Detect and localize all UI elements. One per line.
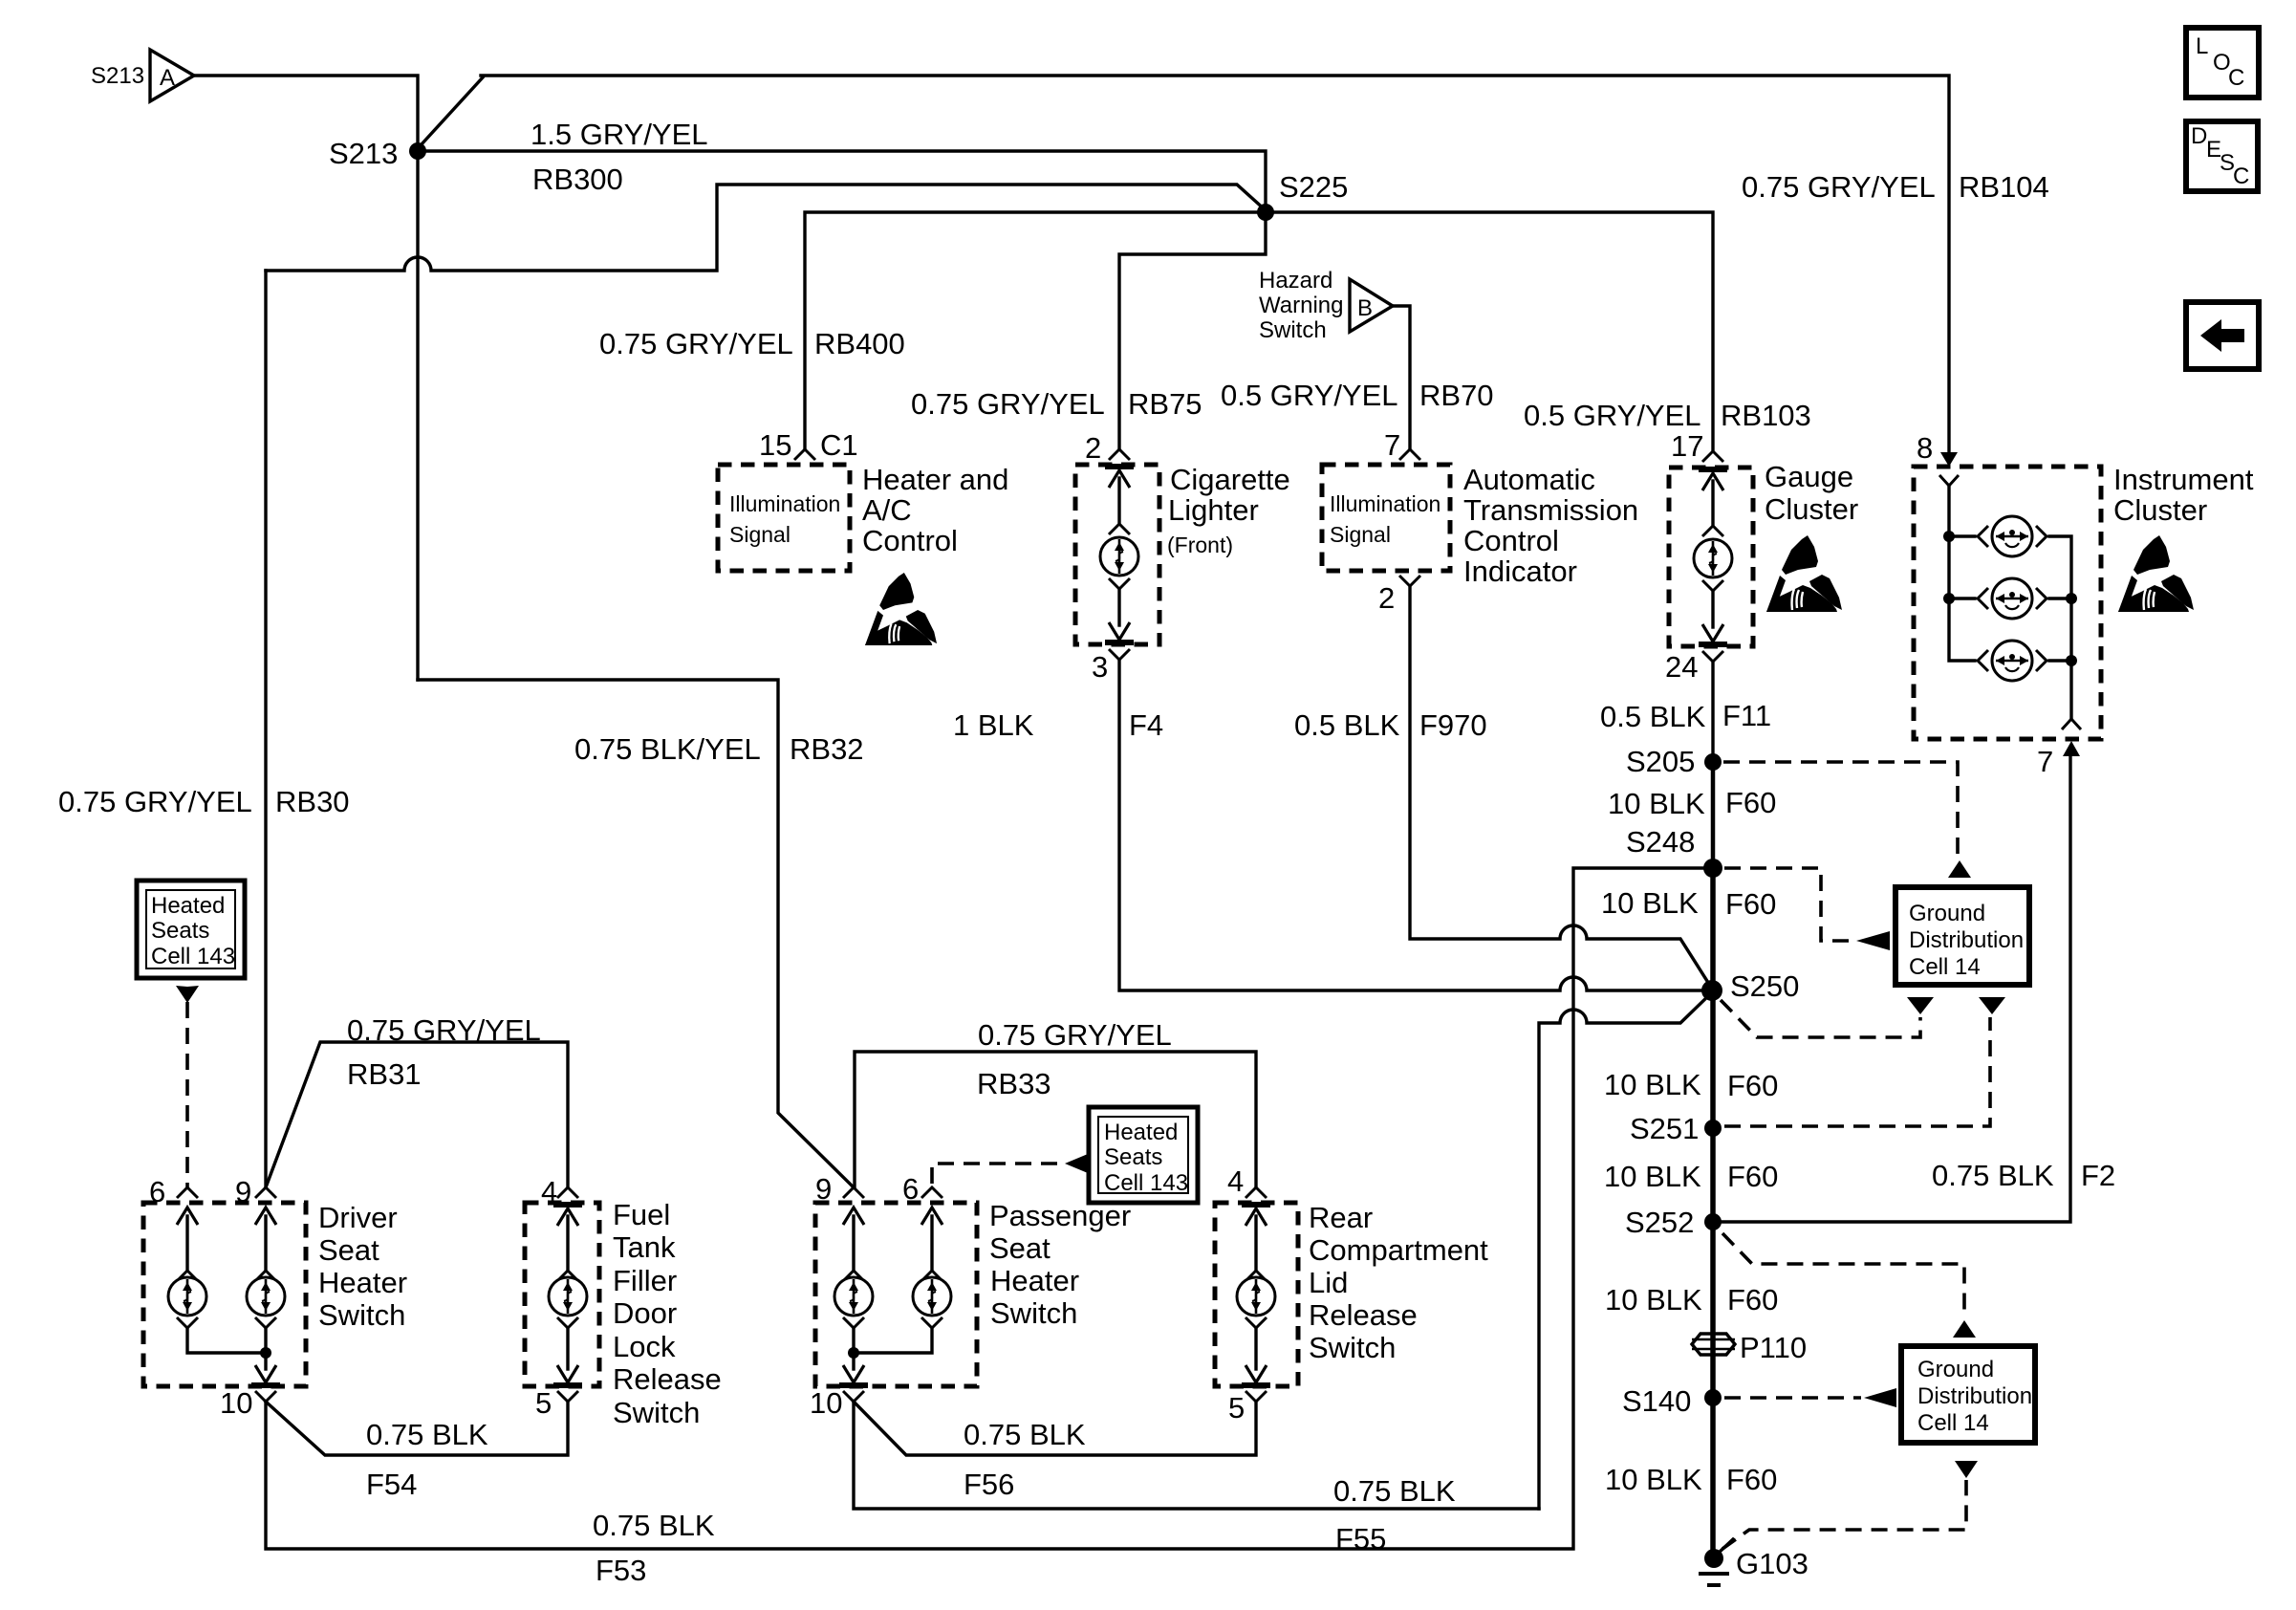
- connector arrow S213-A: [91, 50, 194, 101]
- wire RB104 top run to instrument cluster pin 8: [481, 76, 1949, 453]
- svg-text:A/C: A/C: [862, 493, 912, 527]
- node S248: [1626, 825, 1722, 878]
- svg-text:C: C: [2233, 163, 2249, 189]
- wire F56 passenger pin 10 to rear compartment pin 5: [854, 1402, 1256, 1455]
- svg-text:2: 2: [1378, 581, 1395, 615]
- component cigarette lighter: [1075, 449, 1290, 660]
- svg-text:Heated: Heated: [1104, 1120, 1178, 1145]
- svg-text:8: 8: [1917, 431, 1933, 465]
- svg-text:F60: F60: [1727, 1069, 1778, 1102]
- svg-text:(Front): (Front): [1167, 533, 1233, 557]
- svg-text:10 BLK: 10 BLK: [1608, 787, 1705, 820]
- svg-text:Tank: Tank: [613, 1230, 676, 1264]
- svg-text:F60: F60: [1726, 1463, 1777, 1496]
- dashed link S250 to ground distribution cell 14 upper: [1721, 997, 1934, 1037]
- svg-text:F11: F11: [1722, 699, 1771, 732]
- svg-text:Release: Release: [613, 1362, 722, 1396]
- svg-text:S252: S252: [1625, 1206, 1694, 1239]
- svg-text:F53: F53: [596, 1554, 646, 1587]
- svg-text:17: 17: [1671, 429, 1703, 463]
- svg-text:Signal: Signal: [1330, 522, 1391, 547]
- svg-text:24: 24: [1665, 650, 1698, 684]
- svg-text:RB32: RB32: [790, 732, 864, 766]
- svg-text:Seats: Seats: [151, 918, 209, 944]
- svg-text:Cigarette: Cigarette: [1170, 463, 1290, 496]
- svg-text:Heater and: Heater and: [862, 463, 1008, 496]
- svg-text:3: 3: [1092, 650, 1108, 684]
- svg-text:5: 5: [1228, 1391, 1245, 1425]
- svg-text:Filler: Filler: [613, 1264, 677, 1297]
- svg-text:Seat: Seat: [989, 1231, 1051, 1265]
- svg-text:Signal: Signal: [729, 522, 791, 547]
- box heated seats cell 143 left: [137, 881, 245, 978]
- svg-text:Lid: Lid: [1309, 1266, 1348, 1299]
- wire F4 cigarette lighter pin 3 to S250: [1119, 660, 1710, 990]
- svg-text:RB33: RB33: [977, 1067, 1051, 1100]
- grommet P110: [1692, 1331, 1807, 1364]
- svg-text:F60: F60: [1725, 887, 1776, 921]
- svg-text:Release: Release: [1309, 1298, 1418, 1332]
- svg-text:0.75 BLK: 0.75 BLK: [366, 1418, 488, 1451]
- svg-text:Lighter: Lighter: [1168, 493, 1259, 527]
- component passenger seat heater switch: [815, 1187, 1131, 1402]
- svg-text:C: C: [2228, 65, 2244, 91]
- svg-text:Heater: Heater: [318, 1266, 407, 1299]
- box ground distribution cell 14 lower: [1901, 1346, 2035, 1443]
- dashed link passenger pin 6 to heated seats cell 143: [932, 1154, 1088, 1184]
- svg-text:Cell 14: Cell 14: [1917, 1410, 1989, 1436]
- svg-text:Cell 143: Cell 143: [151, 944, 235, 969]
- svg-text:Seats: Seats: [1104, 1144, 1162, 1170]
- svg-text:Compartment: Compartment: [1309, 1233, 1488, 1267]
- svg-text:F2: F2: [2081, 1159, 2115, 1192]
- svg-text:Cell 143: Cell 143: [1104, 1170, 1188, 1196]
- svg-text:0.75 GRY/YEL: 0.75 GRY/YEL: [347, 1013, 541, 1047]
- svg-text:F60: F60: [1727, 1160, 1778, 1193]
- svg-text:F56: F56: [964, 1468, 1014, 1501]
- svg-text:RB75: RB75: [1128, 387, 1202, 421]
- svg-text:S251: S251: [1630, 1112, 1699, 1145]
- wire RB30 branch S213 down: [416, 151, 419, 680]
- wire RB400 S225 to heater A/C pin 15: [805, 212, 1266, 449]
- svg-text:5: 5: [535, 1386, 552, 1420]
- svg-text:Transmission: Transmission: [1463, 493, 1638, 527]
- svg-text:Ground: Ground: [1909, 901, 1985, 926]
- node S252: [1625, 1206, 1722, 1239]
- svg-text:A: A: [160, 65, 175, 91]
- svg-text:S213: S213: [91, 63, 144, 89]
- svg-text:Cluster: Cluster: [1765, 492, 1858, 526]
- ESD symbol gauge cluster: [1766, 535, 1842, 612]
- svg-text:F54: F54: [366, 1468, 417, 1501]
- svg-text:Control: Control: [862, 524, 958, 557]
- svg-text:Lock: Lock: [613, 1330, 676, 1363]
- svg-text:Seat: Seat: [318, 1233, 379, 1267]
- wire RB30 horizontal with hop to S225 diagonal: [266, 185, 1266, 271]
- dashed link G103 to ground distribution cell 14 lower: [1722, 1461, 1978, 1549]
- wire RB30 vertical to driver pin 9: [264, 271, 267, 1187]
- node S250: [1701, 969, 1799, 1003]
- svg-text:7: 7: [1384, 428, 1400, 462]
- component ATC indicator illumination signal box: [1322, 449, 1638, 588]
- svg-text:Instrument: Instrument: [2113, 463, 2254, 496]
- wire RB103 S225 to gauge cluster pin 17: [1266, 212, 1713, 449]
- svg-text:G103: G103: [1736, 1547, 1809, 1580]
- svg-text:C1: C1: [820, 428, 858, 462]
- svg-text:RB31: RB31: [347, 1057, 422, 1091]
- dashed link S252 to ground distribution cell 14 lower: [1722, 1233, 1976, 1338]
- svg-text:F970: F970: [1419, 708, 1487, 742]
- svg-text:S213: S213: [329, 137, 398, 170]
- svg-text:RB70: RB70: [1419, 379, 1494, 412]
- svg-text:Hazard: Hazard: [1259, 268, 1332, 294]
- svg-text:0.75 GRY/YEL: 0.75 GRY/YEL: [599, 327, 793, 360]
- svg-text:RB103: RB103: [1721, 399, 1811, 432]
- svg-text:Switch: Switch: [318, 1298, 405, 1332]
- node S251: [1630, 1112, 1722, 1145]
- svg-text:10: 10: [220, 1386, 252, 1420]
- svg-text:L: L: [2196, 33, 2208, 59]
- node S140: [1622, 1384, 1722, 1418]
- svg-text:0.75 BLK: 0.75 BLK: [593, 1509, 715, 1542]
- svg-text:1.5 GRY/YEL: 1.5 GRY/YEL: [531, 118, 708, 151]
- svg-text:RB104: RB104: [1959, 170, 2049, 204]
- svg-text:7: 7: [2037, 745, 2053, 778]
- svg-text:F60: F60: [1727, 1283, 1778, 1316]
- svg-text:10 BLK: 10 BLK: [1604, 1068, 1701, 1101]
- svg-text:10 BLK: 10 BLK: [1604, 1160, 1701, 1193]
- dashed link S205 to ground distribution cell 14 upper: [1723, 762, 1971, 878]
- svg-text:Cluster: Cluster: [2113, 493, 2207, 527]
- svg-text:RB30: RB30: [275, 785, 350, 818]
- svg-text:0.5 BLK: 0.5 BLK: [1294, 708, 1400, 742]
- node S205: [1626, 745, 1722, 778]
- wire F60 S205 to S248: [1711, 762, 1716, 868]
- svg-text:0.5 GRY/YEL: 0.5 GRY/YEL: [1524, 399, 1701, 432]
- legend box DESC: [2186, 121, 2258, 191]
- ground G103: [1699, 1539, 1809, 1585]
- wire RB33 passenger pin 9 to rear compartment pin 4: [855, 1052, 1256, 1187]
- svg-text:Switch: Switch: [1309, 1331, 1396, 1364]
- box heated seats cell 143 right: [1089, 1107, 1198, 1203]
- wire RB70 hazard switch to ATC pin 7: [1393, 306, 1410, 449]
- wire F55 passenger pin 10 down and right: [854, 1402, 1539, 1509]
- legend box LOC: [2186, 28, 2259, 98]
- svg-text:0.75 BLK: 0.75 BLK: [1932, 1159, 2054, 1192]
- wire F53 S248 to driver pin 10: [266, 868, 1713, 1549]
- svg-text:RB400: RB400: [814, 327, 905, 360]
- svg-text:Distribution: Distribution: [1917, 1383, 2032, 1409]
- svg-text:Cell 14: Cell 14: [1909, 954, 1981, 980]
- component rear compartment lid release switch: [1215, 1187, 1488, 1402]
- dashed link S140 to ground distribution cell 14 lower: [1724, 1388, 1896, 1407]
- svg-text:S250: S250: [1730, 969, 1799, 1003]
- svg-text:F55: F55: [1335, 1522, 1386, 1556]
- svg-text:F60: F60: [1725, 786, 1776, 819]
- svg-text:10 BLK: 10 BLK: [1601, 886, 1699, 920]
- svg-text:0.75 BLK: 0.75 BLK: [1333, 1474, 1456, 1508]
- svg-text:0.5 GRY/YEL: 0.5 GRY/YEL: [1221, 379, 1398, 412]
- wire F60 bus S248 to G103: [1710, 868, 1716, 1560]
- svg-text:Distribution: Distribution: [1909, 927, 2024, 953]
- wire diagonal S213 to top run: [421, 77, 483, 145]
- svg-text:S225: S225: [1279, 170, 1348, 204]
- svg-text:Ground: Ground: [1917, 1357, 1994, 1382]
- svg-text:Fuel: Fuel: [613, 1198, 670, 1231]
- svg-text:F4: F4: [1129, 708, 1163, 742]
- svg-text:0.75 GRY/YEL: 0.75 GRY/YEL: [911, 387, 1105, 421]
- svg-text:0.5 BLK: 0.5 BLK: [1600, 700, 1706, 733]
- svg-text:S248: S248: [1626, 825, 1695, 859]
- legend box back arrow: [2186, 302, 2259, 369]
- svg-text:Control: Control: [1463, 524, 1559, 557]
- svg-text:Warning: Warning: [1259, 293, 1343, 318]
- svg-text:15: 15: [759, 428, 791, 462]
- wire F11 gauge cluster pin 24 to S205: [1711, 662, 1714, 762]
- svg-text:Illumination: Illumination: [729, 491, 840, 516]
- svg-text:1 BLK: 1 BLK: [953, 708, 1034, 742]
- component instrument cluster: [1914, 452, 2254, 756]
- svg-text:2: 2: [1085, 431, 1101, 465]
- svg-text:0.75 GRY/YEL: 0.75 GRY/YEL: [58, 785, 252, 818]
- dashed link S248 to ground distribution cell 14 upper: [1724, 868, 1890, 950]
- svg-text:S205: S205: [1626, 745, 1695, 778]
- wire RB75 S225 to cigarette lighter pin 2: [1119, 212, 1266, 449]
- svg-text:Illumination: Illumination: [1330, 491, 1440, 516]
- node S225: [1257, 170, 1348, 221]
- svg-text:0.75 GRY/YEL: 0.75 GRY/YEL: [978, 1018, 1172, 1052]
- node S213: [329, 137, 426, 170]
- component driver seat heater switch: [143, 1187, 407, 1402]
- svg-text:10: 10: [810, 1386, 842, 1420]
- svg-text:0.75 BLK/YEL: 0.75 BLK/YEL: [574, 732, 761, 766]
- svg-text:4: 4: [1227, 1164, 1244, 1198]
- wire F55 upper run to S250: [1539, 992, 1712, 1509]
- wire F2 S252 to instrument cluster pin 7: [1713, 756, 2070, 1222]
- svg-text:Door: Door: [613, 1296, 677, 1330]
- svg-text:0.75 BLK: 0.75 BLK: [964, 1418, 1086, 1451]
- wire RB32 S213 branch to passenger pin 9: [418, 680, 854, 1187]
- dashed link heated seats cell 143 to driver pin 6: [176, 986, 199, 1187]
- wire F970 ATC pin 2 to S250: [1410, 586, 1712, 989]
- svg-text:Switch: Switch: [613, 1396, 700, 1429]
- wire RB300 S213 to S225: [418, 151, 1266, 212]
- wire from S213-A arrow to S213 junction: [194, 76, 418, 143]
- svg-text:Switch: Switch: [990, 1296, 1077, 1330]
- ESD symbol instrument cluster: [2118, 535, 2194, 612]
- component gauge cluster: [1669, 451, 1858, 662]
- svg-text:Gauge: Gauge: [1765, 460, 1853, 493]
- svg-text:S140: S140: [1622, 1384, 1691, 1418]
- svg-text:P110: P110: [1740, 1331, 1807, 1364]
- svg-text:Heated: Heated: [151, 893, 225, 919]
- svg-text:D: D: [2191, 123, 2207, 149]
- dashed link S251 to ground distribution cell 14 upper: [1724, 997, 2005, 1126]
- ESD symbol heater A/C: [865, 573, 937, 645]
- connector arrow hazard warning switch B: [1259, 268, 1393, 343]
- svg-text:10 BLK: 10 BLK: [1605, 1463, 1702, 1496]
- svg-text:10 BLK: 10 BLK: [1605, 1283, 1702, 1316]
- svg-text:0.75 GRY/YEL: 0.75 GRY/YEL: [1742, 170, 1936, 204]
- svg-text:Rear: Rear: [1309, 1201, 1373, 1234]
- svg-text:Switch: Switch: [1259, 317, 1327, 343]
- box ground distribution cell 14 upper: [1895, 887, 2029, 985]
- svg-text:Automatic: Automatic: [1463, 463, 1595, 496]
- svg-text:Heater: Heater: [990, 1264, 1079, 1297]
- wire RB31 driver pin 9 to fuel tank pin 4: [266, 1042, 568, 1187]
- svg-text:Driver: Driver: [318, 1201, 398, 1234]
- component fuel tank filler door lock release switch: [525, 1187, 722, 1429]
- component heater and A/C control illumination signal box: [718, 449, 1008, 571]
- svg-text:Indicator: Indicator: [1463, 555, 1577, 588]
- svg-text:RB300: RB300: [532, 163, 623, 196]
- wire F54 driver pin 10 to fuel tank pin 5: [266, 1402, 568, 1455]
- svg-text:B: B: [1357, 295, 1373, 321]
